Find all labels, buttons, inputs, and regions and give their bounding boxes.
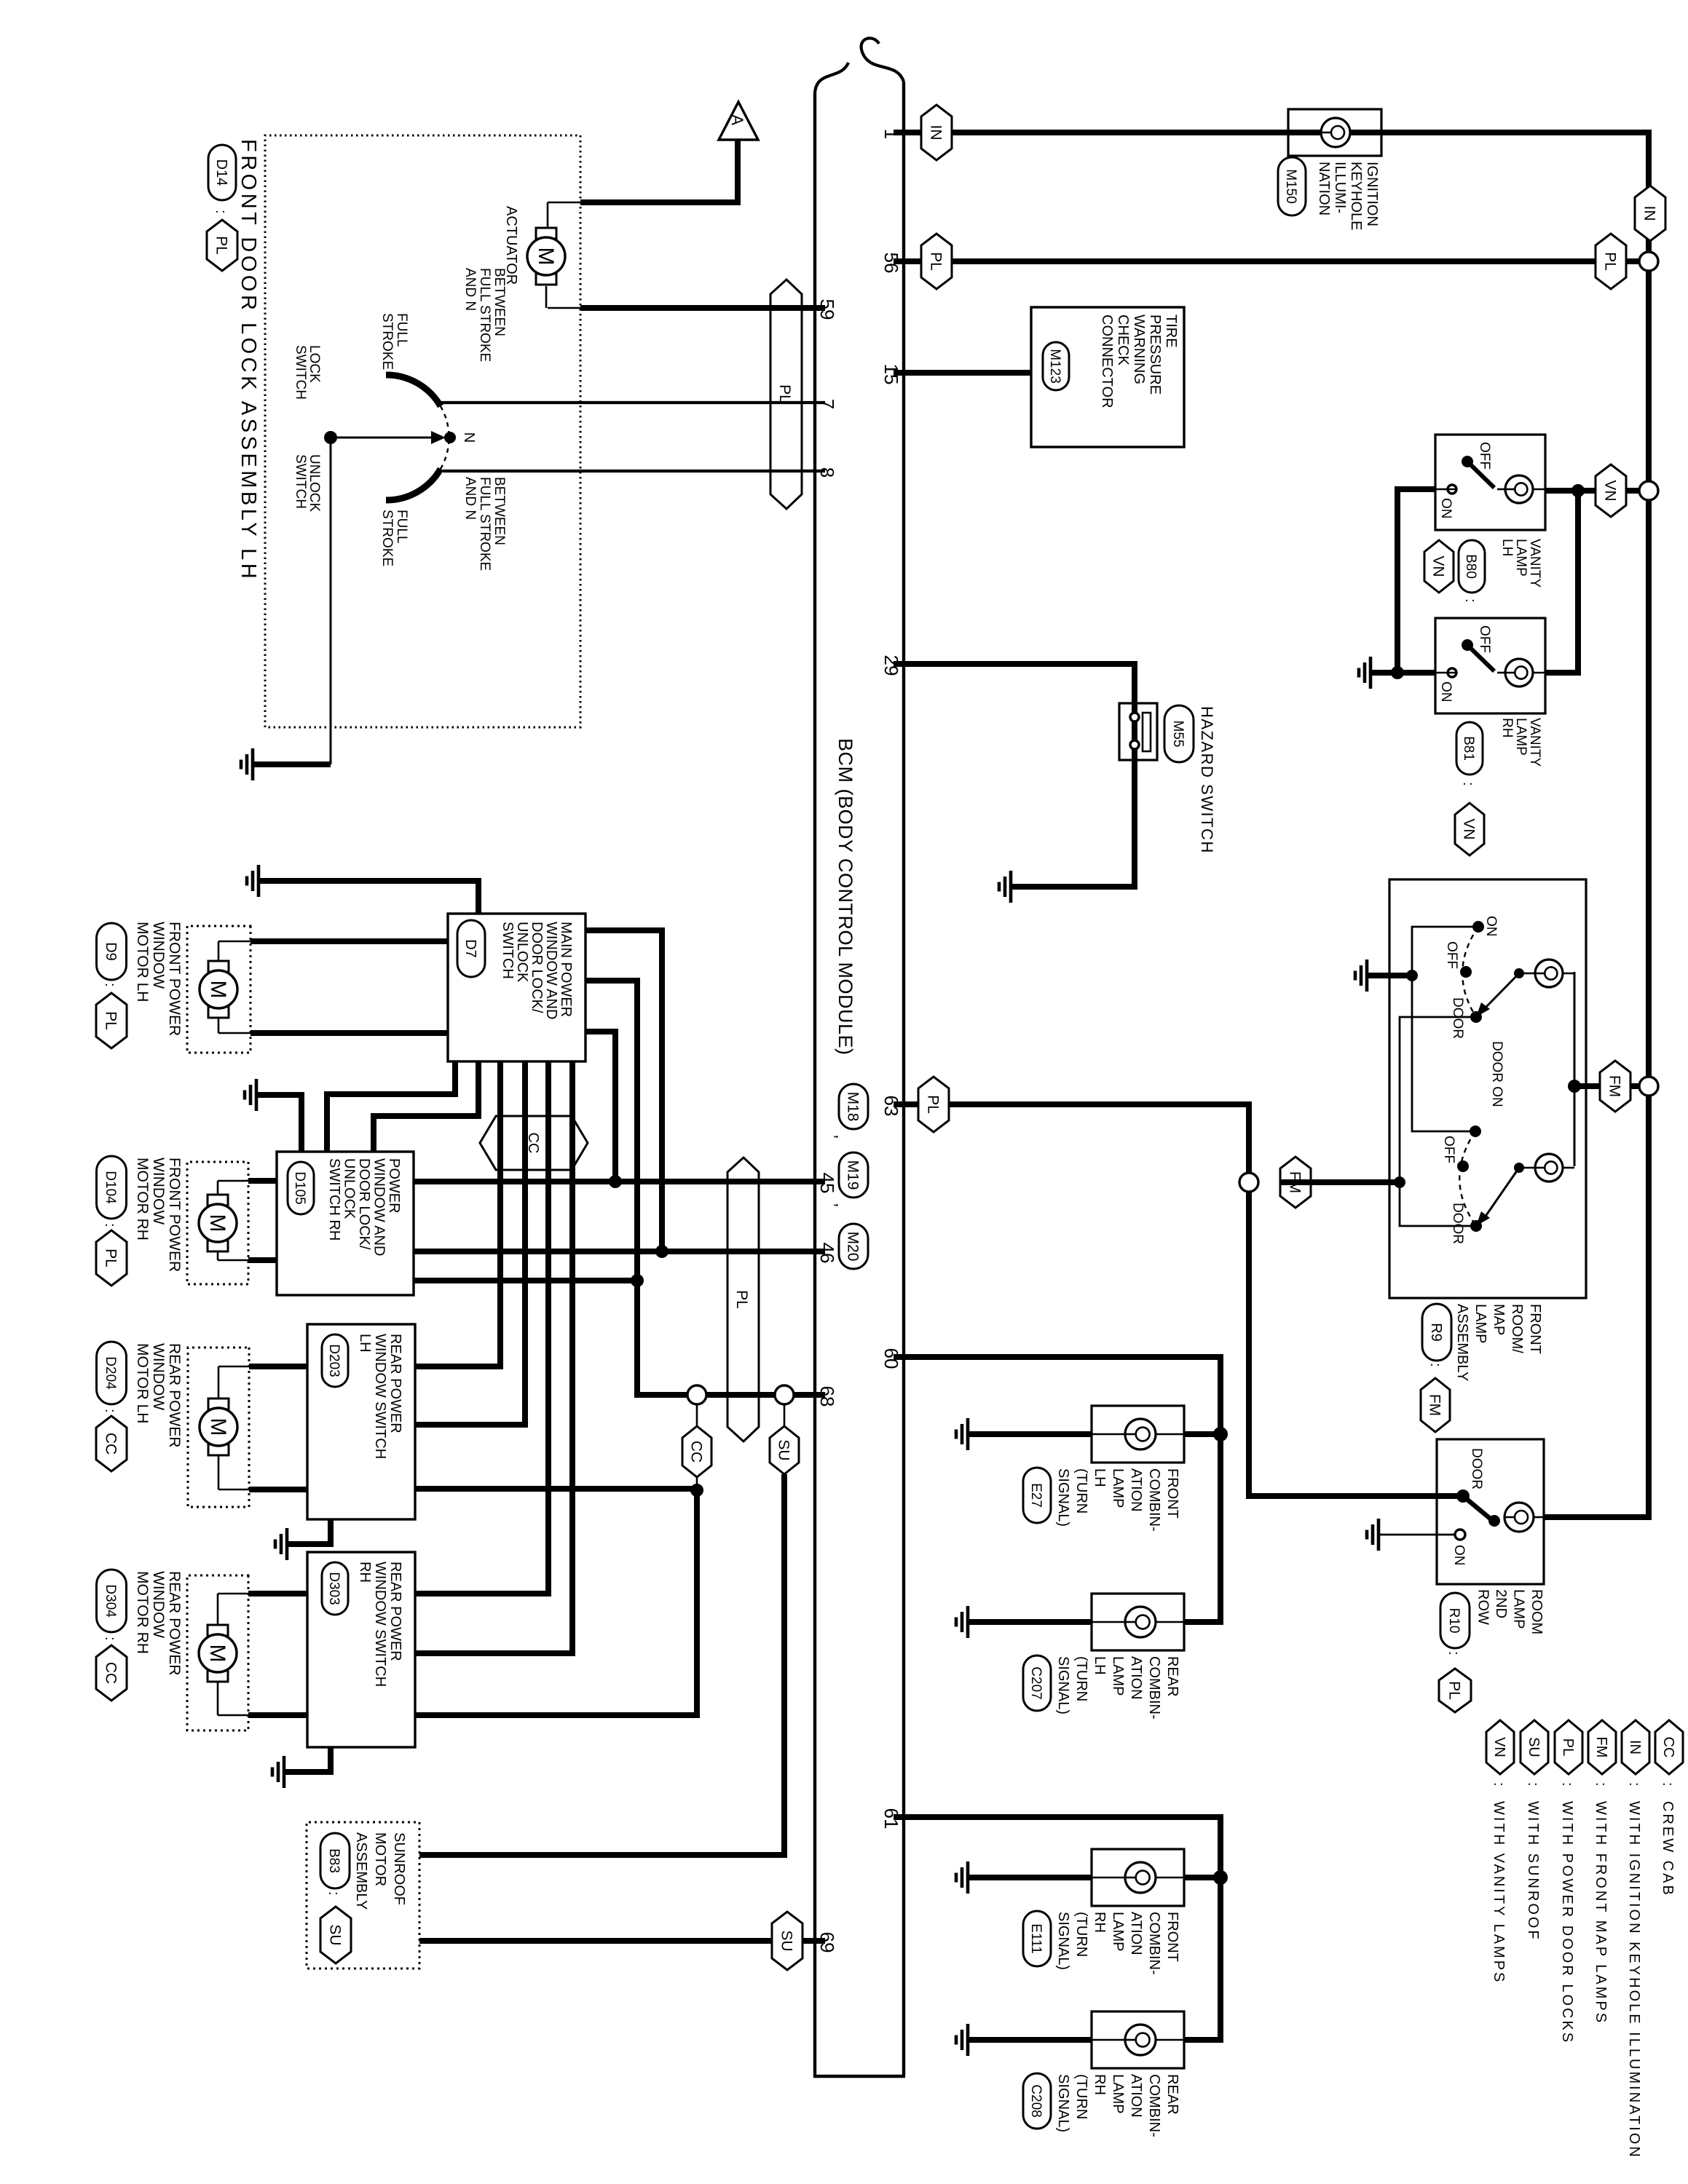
svg-text:ROW: ROW	[1475, 1589, 1491, 1625]
wire vanity RH switch to ground	[1370, 670, 1435, 676]
svg-text:D304: D304	[103, 1584, 118, 1618]
svg-text:MOTOR LH: MOTOR LH	[134, 922, 151, 1002]
svg-text:KEYHOLE: KEYHOLE	[1348, 162, 1364, 230]
svg-text:DOOR ON: DOOR ON	[1489, 1041, 1504, 1107]
front room map lamp assembly R9 box	[1389, 879, 1586, 1298]
svg-text:FM: FM	[1593, 1737, 1609, 1758]
wire vanity LH switch to ground rail	[1397, 489, 1435, 673]
front power window motor RH motor	[199, 1195, 237, 1251]
wire to front combination lamp LH	[1184, 1431, 1220, 1437]
wire D105 to motor RH 2	[248, 1257, 277, 1263]
svg-text:AND N: AND N	[462, 477, 478, 520]
ground front room map lamp	[1355, 960, 1367, 992]
svg-text::: :	[102, 1409, 118, 1413]
svg-text:DOOR LOCK/: DOOR LOCK/	[529, 922, 545, 1013]
connector D104	[97, 1156, 127, 1219]
wire D7 pin to 45	[585, 1032, 615, 1182]
svg-text:MOTOR RH: MOTOR RH	[134, 1158, 151, 1241]
svg-text:ROOM: ROOM	[1529, 1589, 1545, 1634]
legend IN	[1622, 1720, 1649, 1774]
connector flag PL label R10	[1439, 1669, 1471, 1712]
wire top rail	[894, 132, 1649, 1517]
svg-text::: :	[1427, 1363, 1443, 1367]
svg-text:CC: CC	[1660, 1737, 1676, 1758]
connector flag PL below rail	[1596, 234, 1626, 289]
svg-text:D104: D104	[103, 1171, 118, 1204]
room lamp 2nd row bulb	[1504, 1503, 1534, 1532]
connector flag FM label	[1421, 1378, 1450, 1432]
svg-text:SU: SU	[778, 1930, 794, 1951]
rear power window motor LH box D204	[188, 1348, 249, 1507]
svg-text:POWER: POWER	[386, 1158, 402, 1214]
wire D7 pin to 46	[585, 930, 662, 1251]
connector M19	[839, 1152, 868, 1198]
svg-text:FRONT: FRONT	[1164, 1468, 1180, 1519]
svg-text:LH: LH	[1092, 1656, 1108, 1675]
svg-text:PL: PL	[213, 236, 229, 255]
connector B80	[1459, 540, 1485, 593]
wire D105 ground	[256, 1095, 301, 1152]
wire D303 to motor RH 2	[248, 1712, 307, 1718]
connector flag PL label D104	[96, 1230, 127, 1286]
svg-text:M18: M18	[844, 1092, 861, 1122]
wire rear combination lamp LH to ground	[968, 1619, 1092, 1625]
svg-text:N: N	[461, 432, 477, 443]
rear power window motor RH motor	[199, 1625, 237, 1682]
wire FM drop	[1574, 1083, 1639, 1089]
svg-text:REAR: REAR	[1164, 1656, 1180, 1697]
pin 46 wire	[414, 1249, 825, 1254]
connector flag SU pin 69	[772, 1912, 802, 1970]
hazard switch M55	[1119, 703, 1157, 760]
svg-text::: :	[1593, 1782, 1609, 1787]
svg-text:61: 61	[880, 1808, 902, 1829]
svg-text:WINDOW SWITCH: WINDOW SWITCH	[372, 1562, 388, 1687]
svg-text::: :	[213, 210, 229, 214]
wire rear combination lamp RH to ground	[968, 2037, 1092, 2043]
svg-text:VN: VN	[1429, 555, 1446, 577]
ground D7	[247, 865, 259, 897]
pin 7 wire	[441, 401, 825, 404]
svg-text:45: 45	[816, 1173, 838, 1194]
connector flag SU pin 68	[770, 1426, 799, 1474]
svg-text:1: 1	[880, 129, 902, 139]
svg-text:(TURN: (TURN	[1073, 1912, 1089, 1957]
svg-text:WITH VANITY LAMPS: WITH VANITY LAMPS	[1491, 1801, 1507, 1984]
connector flag VN label LH	[1424, 540, 1454, 593]
legend SU	[1521, 1720, 1548, 1774]
svg-text::: :	[102, 1637, 118, 1641]
svg-text:REAR POWER: REAR POWER	[387, 1562, 403, 1661]
svg-text:LAMP: LAMP	[1110, 1468, 1126, 1508]
svg-text:IGNITION: IGNITION	[1364, 162, 1380, 226]
svg-text:WARNING: WARNING	[1131, 314, 1147, 384]
svg-text:DOOR: DOOR	[1450, 1203, 1465, 1244]
main power window switch D7 box	[448, 914, 585, 1061]
svg-text:,: ,	[832, 1203, 851, 1208]
svg-text:WINDOW: WINDOW	[150, 922, 167, 989]
connector flag PL on pin 56	[921, 234, 952, 289]
ground front combination lamp RH	[956, 1861, 968, 1894]
svg-text:M123: M123	[1047, 349, 1062, 384]
connector flag PL on pin 63	[918, 1077, 949, 1132]
svg-text:VN: VN	[1601, 480, 1618, 501]
svg-text:B80: B80	[1463, 554, 1478, 579]
svg-text:MAIN POWER: MAIN POWER	[558, 922, 574, 1017]
room lamp wiper arrow	[1485, 1168, 1519, 1217]
front combination lamp RH box	[1092, 1849, 1184, 1906]
svg-text:DOOR: DOOR	[1450, 997, 1465, 1039]
svg-text:HAZARD SWITCH: HAZARD SWITCH	[1198, 706, 1216, 854]
svg-text:68: 68	[816, 1386, 838, 1407]
connector flag PL label D9	[96, 993, 127, 1048]
svg-text:WITH SUNROOF: WITH SUNROOF	[1525, 1801, 1541, 1942]
lock switch wiper	[331, 437, 434, 439]
svg-text:OFF: OFF	[1444, 941, 1459, 969]
room lamp switch contacts DOOR ON OFF DOOR	[1470, 1125, 1481, 1137]
pin 63 wire	[894, 1104, 1463, 1496]
wire to front combination lamp RH	[1184, 1875, 1220, 1880]
wire D7 pin to 68 and D105	[585, 981, 637, 1281]
connector flag CC crossing bundle	[480, 1116, 588, 1170]
wire front combination lamp LH to ground	[968, 1431, 1092, 1437]
connector flag SU label B83	[320, 1907, 351, 1963]
front door lock assembly LH box	[265, 135, 580, 727]
svg-text:OFF: OFF	[1477, 625, 1492, 653]
connector R9	[1422, 1304, 1451, 1361]
svg-text:STROKE: STROKE	[379, 510, 395, 566]
svg-text:SIGNAL): SIGNAL)	[1055, 2074, 1071, 2132]
svg-text:MAP: MAP	[1491, 1304, 1507, 1335]
ground D105	[245, 1079, 256, 1111]
svg-text:(TURN: (TURN	[1073, 1468, 1089, 1514]
svg-text:29: 29	[880, 655, 902, 676]
ground vanity lamps	[1359, 657, 1370, 689]
svg-text:,: ,	[832, 1134, 851, 1139]
front combination lamp RH bulb	[1125, 1862, 1156, 1893]
connector D7	[457, 920, 485, 977]
junction dot vanity ground	[1391, 666, 1404, 679]
svg-text:IN: IN	[1627, 1740, 1643, 1754]
wire A to actuator	[580, 140, 738, 202]
svg-text:FULL: FULL	[394, 510, 409, 543]
legend CC	[1655, 1720, 1683, 1774]
junction dot lock switch common	[324, 431, 337, 444]
svg-text:VANITY: VANITY	[1527, 539, 1542, 588]
svg-text:WITH IGNITION KEYHOLE ILLUMINA: WITH IGNITION KEYHOLE ILLUMINATION	[1626, 1801, 1642, 2159]
svg-text::: :	[326, 1891, 342, 1896]
connector M20	[839, 1224, 868, 1269]
svg-text:PL: PL	[1601, 252, 1618, 271]
svg-text:WINDOW: WINDOW	[150, 1158, 167, 1224]
svg-text:SUNROOF: SUNROOF	[391, 1832, 407, 1905]
svg-text:WITH POWER DOOR LOCKS: WITH POWER DOOR LOCKS	[1559, 1801, 1575, 2044]
svg-text:69: 69	[816, 1932, 838, 1953]
connector M55	[1164, 705, 1194, 762]
svg-text:15: 15	[880, 364, 902, 385]
svg-text:UNLOCK: UNLOCK	[342, 1158, 358, 1219]
wire SU to sunroof	[419, 1474, 784, 1855]
svg-text:CREW CAB: CREW CAB	[1660, 1801, 1676, 1897]
connector B83	[320, 1833, 350, 1888]
ground hazard	[999, 871, 1011, 903]
svg-text:FULL: FULL	[394, 313, 409, 347]
svg-text:LH: LH	[357, 1334, 373, 1353]
svg-text:REAR POWER: REAR POWER	[166, 1571, 183, 1676]
svg-text:SU: SU	[326, 1924, 343, 1945]
rear combination lamp LH bulb	[1125, 1607, 1156, 1637]
rear power window motor LH motor	[200, 1398, 237, 1455]
ignition keyhole illumination M150 box	[1288, 109, 1381, 156]
rear combination lamp LH box	[1092, 1594, 1184, 1650]
svg-text:WINDOW AND: WINDOW AND	[371, 1158, 387, 1256]
ground room lamp 2nd row	[1367, 1519, 1379, 1551]
connector D303	[322, 1562, 348, 1615]
svg-text:B83: B83	[326, 1848, 342, 1873]
svg-text:LAMP: LAMP	[1513, 539, 1529, 577]
svg-text:REAR POWER: REAR POWER	[166, 1343, 183, 1448]
map lamp switch contacts ON OFF DOOR	[1472, 921, 1484, 933]
svg-text:(TURN: (TURN	[1073, 1656, 1089, 1701]
svg-text:IN: IN	[1641, 206, 1657, 221]
wire lock switch common to ground	[330, 438, 332, 764]
junction circle FM tap on 63 wire	[1239, 1173, 1258, 1192]
door lock actuator motor	[527, 228, 565, 285]
svg-text:CC: CC	[102, 1662, 119, 1684]
svg-text:SIGNAL): SIGNAL)	[1055, 1912, 1071, 1970]
front combination lamp LH bulb	[1125, 1419, 1156, 1449]
svg-text::: :	[1559, 1782, 1575, 1787]
svg-text:LAMP: LAMP	[1511, 1589, 1527, 1629]
ground D203	[275, 1528, 287, 1560]
svg-text:M: M	[205, 1214, 229, 1233]
pin 59 wire	[580, 305, 825, 311]
svg-text:ASSEMBLY: ASSEMBLY	[353, 1832, 369, 1910]
pin 8 wire	[443, 470, 825, 472]
wire hazard to ground	[1011, 884, 1137, 890]
svg-text:OFF: OFF	[1477, 442, 1492, 470]
svg-text:LAMP: LAMP	[1110, 1656, 1126, 1696]
connector M150	[1278, 157, 1306, 215]
svg-text:ILLUMI-: ILLUMI-	[1332, 162, 1348, 213]
wire D7 to motor LH up	[251, 938, 448, 944]
svg-text:RH: RH	[1092, 1912, 1108, 1933]
svg-text:MOTOR RH: MOTOR RH	[134, 1571, 151, 1654]
connector E111	[1023, 1911, 1051, 1966]
ground door lock assembly	[241, 748, 253, 780]
svg-text:D204: D204	[103, 1356, 118, 1390]
svg-text:ON: ON	[1451, 1545, 1467, 1566]
connector flag CC label D304	[96, 1645, 127, 1701]
connector flag PL label D14	[207, 220, 237, 271]
svg-text:R10: R10	[1446, 1608, 1462, 1634]
wire D203 to motor LH 2	[249, 1487, 307, 1492]
svg-text:FM: FM	[1426, 1394, 1443, 1416]
wire D303 to motor RH 1	[248, 1591, 307, 1597]
front power window motor LH motor	[200, 961, 237, 1018]
svg-text:LH: LH	[1092, 1468, 1108, 1487]
svg-text:C207: C207	[1028, 1666, 1044, 1699]
svg-text:PL: PL	[927, 252, 944, 271]
pin 69 wire	[419, 1938, 825, 1944]
BCM body control module bus	[902, 82, 905, 2076]
legend VN	[1486, 1720, 1514, 1774]
connector D304	[97, 1570, 127, 1632]
svg-text:BETWEEN: BETWEEN	[492, 268, 507, 336]
svg-text:UNLOCK: UNLOCK	[514, 922, 530, 983]
wire D203 to motor LH 1	[249, 1364, 307, 1369]
svg-text:D7: D7	[462, 939, 478, 958]
svg-text:WINDOW SWITCH: WINDOW SWITCH	[372, 1334, 388, 1459]
map lamp bulb	[1563, 973, 1574, 975]
svg-text:CHECK: CHECK	[1115, 314, 1131, 366]
svg-text:M: M	[206, 1418, 230, 1436]
vanity lamp RH box	[1435, 618, 1545, 713]
connector R10	[1440, 1593, 1470, 1648]
wire D7 ground	[259, 881, 478, 914]
lock switch dial	[386, 375, 441, 406]
svg-text:PL: PL	[1560, 1738, 1576, 1756]
pin 15 wire	[894, 370, 1031, 376]
svg-text:SWITCH: SWITCH	[293, 454, 308, 509]
wire R9 to ground	[1367, 973, 1412, 978]
svg-text:VANITY: VANITY	[1527, 718, 1542, 767]
pin 29 wire	[894, 664, 1135, 887]
svg-text:ASSEMBLY: ASSEMBLY	[1454, 1304, 1470, 1381]
svg-text:PL: PL	[102, 1249, 119, 1267]
wire CC branch to rear window switch RH	[696, 1477, 698, 1490]
svg-text:FRONT POWER: FRONT POWER	[166, 922, 183, 1036]
svg-text:D303: D303	[326, 1572, 342, 1605]
ground rear combination lamp LH	[956, 1606, 968, 1638]
rear combination lamp RH bulb	[1125, 2025, 1156, 2055]
sunroof motor assembly box B83	[307, 1822, 419, 1969]
svg-text:ON: ON	[1438, 498, 1454, 519]
svg-text:VN: VN	[1460, 818, 1477, 839]
wire D7 to D105 upper	[327, 1061, 455, 1152]
connector D14	[208, 145, 236, 200]
ground front combination lamp LH	[956, 1418, 968, 1450]
bulb rail in R9	[1574, 972, 1576, 1166]
svg-text:SIGNAL): SIGNAL)	[1055, 1468, 1071, 1527]
svg-text:REAR POWER: REAR POWER	[387, 1334, 403, 1433]
wire D7 to rear switch RH pin1	[415, 1061, 548, 1594]
svg-text:SWITCH: SWITCH	[293, 345, 308, 400]
junction circle SU on pin 68	[775, 1385, 794, 1404]
svg-text::: :	[1525, 1782, 1541, 1787]
svg-text::: :	[1491, 1782, 1507, 1787]
wire front combination lamp RH to ground	[968, 1875, 1092, 1880]
off-page connector A triangle	[719, 102, 758, 140]
svg-text:60: 60	[880, 1348, 902, 1369]
junction dot vanity	[1571, 484, 1585, 497]
connector E27	[1023, 1468, 1051, 1523]
connector flag IN on pin 1	[921, 105, 952, 160]
svg-text:SWITCH: SWITCH	[500, 922, 516, 979]
junction circle CC on pin 68	[687, 1385, 706, 1404]
connector D9	[97, 923, 127, 980]
svg-text:56: 56	[880, 253, 902, 274]
lock switch N contact	[444, 432, 456, 443]
svg-text:FRONT POWER: FRONT POWER	[166, 1158, 183, 1272]
svg-text:ROOM/: ROOM/	[1509, 1304, 1525, 1353]
junction dot FM bulb rail	[1568, 1080, 1581, 1093]
R9 internal link DOOR to DOOR with FM tap	[1400, 1017, 1476, 1226]
legend PL	[1555, 1720, 1582, 1774]
svg-text:R9: R9	[1428, 1323, 1444, 1342]
rear power window switch LH D203 box	[307, 1324, 415, 1519]
svg-text:PL: PL	[733, 1290, 750, 1309]
svg-text:FRONT: FRONT	[1527, 1304, 1543, 1354]
svg-text:UNLOCK: UNLOCK	[307, 454, 322, 513]
svg-text:RH: RH	[1092, 2074, 1108, 2095]
svg-text:COMBIN-: COMBIN-	[1146, 1468, 1162, 1532]
R9 internal link ON to DOOR ON with ground	[1412, 927, 1478, 1131]
front power window motor LH box D9	[187, 926, 251, 1053]
connector flag IN on rail	[1635, 186, 1665, 241]
svg-text:CONNECTOR: CONNECTOR	[1099, 314, 1115, 408]
svg-text:63: 63	[880, 1096, 902, 1117]
svg-text::: :	[1446, 1651, 1462, 1655]
svg-text:OFF: OFF	[1441, 1136, 1456, 1163]
svg-text::: :	[1660, 1782, 1676, 1787]
pin 56 wire	[894, 258, 1644, 264]
svg-text:DOOR: DOOR	[1469, 1448, 1484, 1489]
junction rail pin56	[1639, 252, 1658, 271]
svg-text:BETWEEN: BETWEEN	[492, 477, 507, 545]
svg-text:46: 46	[816, 1243, 838, 1264]
svg-text:D14: D14	[213, 159, 229, 186]
svg-text::: :	[1462, 598, 1478, 603]
junction dot front combination lamp LH	[1213, 1427, 1228, 1441]
wire D7 to motor LH down	[251, 1030, 448, 1036]
ignition keyhole illumination bulb	[1321, 118, 1350, 147]
wire D303 ground	[284, 1747, 331, 1772]
connector flag VN near rail	[1596, 464, 1626, 517]
vanity lamp LH bulb	[1505, 475, 1533, 503]
svg-text:7: 7	[816, 399, 838, 409]
wire D105 to motor RH 1	[248, 1178, 277, 1184]
svg-text:ON: ON	[1483, 916, 1499, 937]
svg-text:DOOR LOCK/: DOOR LOCK/	[356, 1158, 372, 1250]
room lamp bulb in R9	[1563, 1167, 1574, 1169]
svg-text:FRONT: FRONT	[1164, 1912, 1180, 1962]
wire vanity LH to RH	[1545, 491, 1578, 673]
wire D7 to rear switch LH pin2	[415, 1061, 525, 1425]
svg-text:IN: IN	[927, 125, 944, 141]
svg-text:PL: PL	[924, 1095, 941, 1114]
connector flag FM above 63 wire	[1280, 1157, 1311, 1208]
tire pressure warning check connector box M123	[1031, 307, 1184, 447]
rear power window motor RH box D304	[187, 1575, 248, 1730]
svg-text:COMBIN-: COMBIN-	[1146, 1912, 1162, 1975]
svg-text:LAMP: LAMP	[1513, 718, 1529, 756]
svg-text:RH: RH	[1499, 718, 1515, 737]
connector M123	[1043, 342, 1069, 390]
svg-text:CC: CC	[687, 1441, 704, 1463]
svg-text:COMBIN-: COMBIN-	[1146, 2074, 1162, 2137]
ground D303	[272, 1756, 284, 1788]
svg-text:D203: D203	[326, 1344, 342, 1377]
svg-text:M20: M20	[844, 1232, 861, 1262]
connector D203	[322, 1334, 348, 1387]
svg-text:FULL STROKE: FULL STROKE	[477, 268, 492, 362]
front power window motor RH box D104	[187, 1162, 248, 1284]
svg-text:VN: VN	[1491, 1737, 1507, 1757]
connector flag PL long pins 59 7 8	[770, 280, 802, 509]
svg-text:8: 8	[816, 467, 838, 478]
svg-text:59: 59	[816, 299, 838, 320]
